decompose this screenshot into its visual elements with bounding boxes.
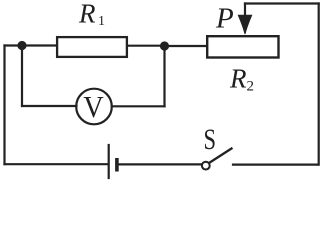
svg-text:2: 2	[247, 79, 255, 95]
wire voltmeter to right vertical	[112, 105, 165, 107]
wire bottom left segment	[5, 163, 108, 165]
wire battery to switch	[120, 163, 202, 165]
resistor R1 body	[57, 37, 127, 57]
voltmeter V body	[76, 89, 112, 125]
wire right rail	[318, 4, 320, 165]
svg-text:1: 1	[98, 14, 105, 29]
wire left junction to left rail	[5, 44, 23, 46]
node junction left	[18, 41, 26, 49]
svg-text:V: V	[83, 89, 104, 124]
wire to voltmeter	[22, 105, 77, 107]
potentiometer R2 wiper arrowhead	[238, 15, 251, 34]
wire up to junction	[163, 46, 165, 106]
wire voltmeter branch down	[21, 46, 23, 107]
label R1	[78, 0, 105, 29]
battery cell	[109, 145, 117, 178]
potentiometer R2 wiper arm	[244, 4, 246, 17]
svg-text:R: R	[78, 0, 96, 29]
wire R2 to junction	[165, 45, 207, 47]
wire top segment to wiper	[245, 2, 319, 4]
svg-text:S: S	[204, 123, 217, 156]
wire junction to R1	[128, 45, 165, 47]
wire switch to right rail	[233, 164, 318, 166]
wire R1 to left junction	[22, 44, 56, 46]
node junction right	[160, 42, 168, 50]
label R2	[229, 64, 254, 95]
svg-text:P: P	[215, 3, 234, 35]
svg-text:R: R	[229, 64, 247, 94]
potentiometer R2 body	[207, 36, 278, 57]
wire left rail	[3, 46, 5, 165]
switch S	[202, 149, 232, 170]
